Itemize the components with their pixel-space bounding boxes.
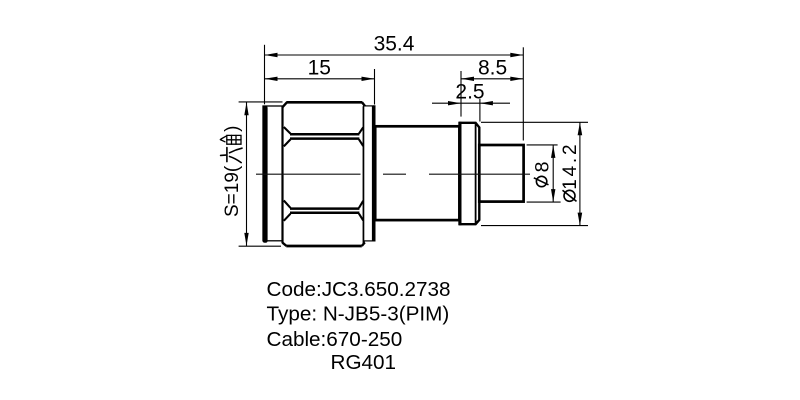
svg-text:RG401: RG401 [331,351,397,374]
centerline [256,173,530,175]
connector body [375,126,459,220]
svg-text:8: 8 [531,162,553,173]
hex upper flat boundary [284,127,363,146]
CJK liu (six), rotated 90ccw, drawn in page coords [221,148,242,163]
dimension dia 8 [527,145,561,202]
hex right edge [363,106,365,243]
svg-text:Cable:670-250: Cable:670-250 [267,328,403,351]
svg-text:): ) [222,125,243,131]
dimension dia 14.2 [481,122,588,225]
svg-text:2.5: 2.5 [455,81,484,104]
hex nut body fill [283,102,366,246]
hex bottom edge [286,245,362,248]
svg-text:15: 15 [308,57,331,80]
dimension 8.5 [461,57,523,117]
coupling nut right rim [364,105,376,241]
svg-text:Type: N-JB5-3(PIM): Type: N-JB5-3(PIM) [267,303,450,326]
hex lower flat boundary [284,201,363,221]
CJK jiao (horn), rotated 90ccw, drawn in page coords [220,135,241,144]
phi symbol [563,190,577,201]
dimension 15 [265,57,375,105]
dimension 35.4 [265,32,524,140]
flange [460,122,479,226]
hex left edge [281,106,283,243]
hex top edge [286,101,362,104]
svg-text:8.5: 8.5 [478,57,507,80]
phi symbol [534,176,549,186]
dimension 2.5 [432,81,510,122]
hex corner chamfers [283,102,366,246]
dimension S=19 across flats [220,102,282,246]
coupling nut left rim [263,106,283,243]
cable entry cylinder [479,145,523,202]
svg-text:Code:JC3.650.2738: Code:JC3.650.2738 [267,278,451,301]
svg-text:14.2: 14.2 [560,142,581,190]
svg-text:S=19(: S=19( [222,165,243,217]
svg-text:35.4: 35.4 [374,32,415,55]
